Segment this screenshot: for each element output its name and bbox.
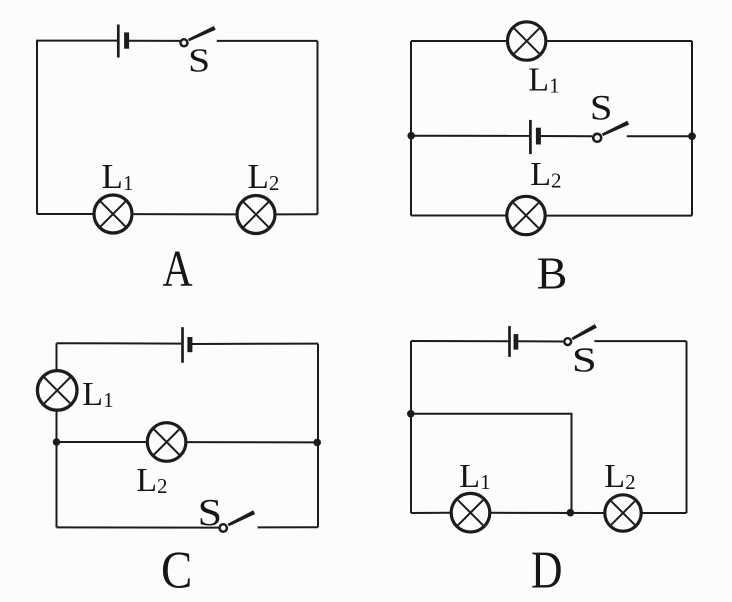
wire A top edge left segment: [36, 40, 117, 42]
wire D bottom edge right segment: [642, 512, 687, 514]
wire B bottom edge right segment: [547, 215, 692, 217]
wire C left edge upper segment: [56, 343, 58, 370]
wire B left edge: [410, 41, 412, 216]
svg-text:S: S: [590, 88, 613, 128]
wire D right edge: [686, 341, 688, 513]
wire D left edge: [410, 341, 412, 513]
wire C right edge: [317, 344, 319, 528]
lamp L2 (D): [605, 495, 641, 531]
svg-text:A: A: [162, 241, 192, 298]
wire C top edge right segment: [190, 343, 318, 345]
switch S pivot circle (B): [593, 134, 601, 142]
svg-text:L2: L2: [248, 157, 280, 196]
svg-text:C: C: [161, 542, 192, 600]
lamp L1 (D): [451, 493, 490, 532]
junction dot C right: [313, 439, 321, 447]
wire D bottom edge middle segment: [491, 512, 604, 514]
junction dot D left: [407, 410, 415, 418]
wire C middle branch left segment: [57, 441, 147, 443]
junction dot D bottom: [567, 509, 575, 517]
svg-text:L1: L1: [102, 157, 134, 196]
svg-text:D: D: [531, 542, 563, 600]
wire B top edge right segment: [547, 40, 692, 42]
battery D long plate (+): [508, 326, 511, 357]
battery C short plate (-): [187, 337, 192, 352]
wire D top edge left segment: [411, 340, 508, 342]
wire D bottom edge left segment: [411, 512, 450, 514]
svg-text:L1: L1: [82, 376, 113, 413]
battery C long plate (+): [181, 327, 184, 363]
lamp L2 (A): [237, 196, 275, 234]
wire A top edge middle segment: [127, 40, 180, 42]
svg-text:L2: L2: [530, 156, 561, 193]
wire C top edge left segment: [57, 342, 182, 344]
lamp L2 (B): [507, 196, 545, 234]
switch S lever (A): [188, 26, 216, 41]
svg-text:S: S: [188, 42, 210, 79]
wire B middle branch centre segment: [538, 135, 592, 137]
svg-text:S: S: [572, 341, 597, 380]
wire B bottom edge left segment: [411, 215, 505, 217]
wire B middle branch right segment: [627, 135, 692, 137]
wire A bottom edge right segment: [277, 213, 318, 215]
switch S lever (B): [602, 121, 629, 136]
wire C middle branch right segment: [187, 441, 318, 443]
svg-text:L2: L2: [136, 462, 167, 499]
battery B long plate (+): [529, 120, 532, 154]
battery B short plate (-): [536, 128, 541, 145]
svg-text:L1: L1: [528, 62, 559, 99]
svg-text:L2: L2: [604, 458, 635, 495]
wire D top edge middle segment: [516, 340, 564, 342]
wire C bottom edge left segment: [57, 526, 219, 528]
lamp L1 (A): [94, 195, 132, 233]
junction dot B left: [407, 132, 415, 140]
wire A bottom edge middle segment: [134, 213, 236, 215]
wire D top edge right segment: [594, 340, 686, 342]
switch S pivot circle (C): [220, 524, 227, 531]
wire A right edge: [317, 41, 319, 214]
switch S pivot circle (D): [564, 338, 571, 345]
svg-text:S: S: [198, 492, 223, 534]
wire C bottom edge right segment: [258, 526, 318, 528]
wire C left edge lower segment: [56, 410, 58, 527]
wire A bottom edge left segment: [37, 213, 93, 215]
svg-text:B: B: [537, 247, 568, 298]
junction dot C left: [53, 438, 61, 446]
svg-text:L1: L1: [459, 458, 490, 495]
lamp L2 (C): [147, 423, 186, 462]
switch S lever (C): [228, 510, 255, 526]
battery A long plate (+): [117, 25, 120, 58]
wire D inner branch (horizontal + vertical): [411, 414, 572, 513]
switch S pivot circle (A): [181, 39, 188, 46]
wire B right edge: [691, 41, 693, 216]
lamp L1 (B): [508, 22, 546, 60]
battery D short plate (-): [514, 334, 519, 350]
wire B middle branch left segment: [411, 135, 529, 137]
wire B top edge left segment: [411, 40, 506, 42]
battery A short plate (-): [124, 32, 129, 48]
switch S lever (D): [572, 324, 597, 340]
wire A top edge right segment: [217, 40, 318, 42]
junction dot B right: [688, 132, 696, 140]
lamp L1 (C): [37, 371, 77, 411]
wire A left edge: [36, 41, 38, 214]
